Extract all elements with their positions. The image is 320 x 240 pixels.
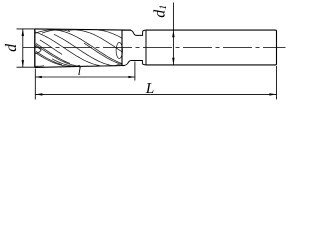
neck groove bottom shoulder (142, 64, 146, 65)
dimension d1 arrow up (172, 30, 174, 37)
neck groove top shoulder (143, 30, 146, 31)
dimension l left extension line (shared with L) (34, 69, 36, 100)
dimension l right extension line (134, 62, 136, 81)
flute curve B2 (35, 65, 44, 68)
flute land A0 (40, 40, 62, 54)
flute curve B3 (35, 44, 88, 66)
dimension d arrow up (22, 29, 24, 36)
svg-text:l: l (78, 66, 81, 78)
dimension d top extension line (17, 28, 38, 30)
end tooth arc lower (35, 50, 42, 54)
flute end grind lens (116, 43, 122, 59)
svg-text:L: L (145, 81, 154, 97)
cutter body left edge (34, 29, 36, 68)
neck collar top edge (122, 29, 131, 31)
flute land A5 (98, 30, 122, 38)
shank outline (146, 30, 277, 65)
flute pair A3c (84, 43, 122, 64)
cutter body top silhouette (35, 29, 131, 30)
svg-text:d: d (3, 43, 20, 52)
dimension l arrow right (128, 76, 135, 78)
centerline (23, 47, 286, 49)
flute pair B3c (36, 43, 70, 63)
flute pair B1c (36, 51, 62, 64)
end tooth arc upper (35, 46, 42, 50)
cutter body bottom silhouette (35, 66, 125, 68)
dimension L arrow right (269, 93, 276, 95)
neck groove bottom profile (124, 61, 142, 66)
flute land A3b (42, 30, 70, 33)
dimension d1 line (172, 3, 174, 65)
dimension d1 arrow down (172, 58, 174, 65)
dimension d arrow down (22, 60, 24, 67)
flute end edge (121, 30, 123, 66)
neck groove top profile (130, 30, 142, 35)
shank left transition line (145, 30, 147, 65)
flute curve A3 (35, 30, 122, 64)
neck collar bottom edge (122, 65, 125, 67)
dimension L line (35, 93, 276, 95)
dimension l line (35, 76, 135, 78)
flute curve A2 (54, 34, 119, 65)
dimension l arrow left (35, 76, 42, 78)
dimension L right extension line (276, 66, 278, 100)
dimension L arrow left (35, 93, 42, 95)
flute curve A1 (35, 32, 122, 66)
flute curve A4 (68, 30, 122, 52)
flute curve B1 (35, 52, 80, 66)
dimension d line (22, 29, 24, 67)
dimension d bottom extension line (17, 66, 38, 68)
flute land B1b (52, 59, 76, 67)
